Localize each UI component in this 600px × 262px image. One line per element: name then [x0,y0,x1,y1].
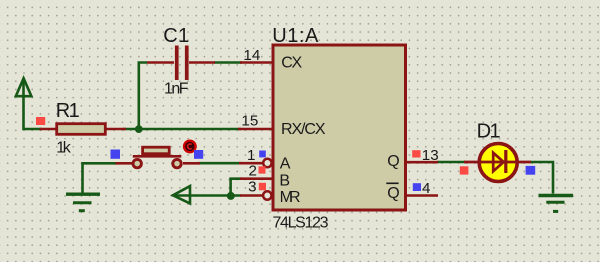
svg-text:13: 13 [422,147,439,164]
svg-text:4: 4 [422,180,430,197]
svg-text:Q: Q [387,185,399,202]
svg-text:B: B [279,173,290,190]
svg-text:R1: R1 [56,100,80,122]
svg-text:CX: CX [281,55,302,72]
svg-text:3: 3 [248,178,256,195]
svg-text:D1: D1 [477,121,501,143]
svg-text:A: A [280,156,291,173]
svg-text:1nF: 1nF [164,81,189,98]
svg-text:MR: MR [280,189,301,206]
svg-text:1k: 1k [56,139,72,156]
svg-text:74LS123: 74LS123 [273,214,329,231]
svg-text:1: 1 [247,147,255,164]
svg-text:Q: Q [387,153,399,170]
svg-text:C1: C1 [163,25,189,47]
svg-text:2: 2 [249,163,257,180]
svg-text:U1:A: U1:A [272,25,319,47]
svg-text:14: 14 [243,47,260,64]
svg-text:15: 15 [241,113,258,130]
svg-text:RX/CX: RX/CX [281,121,326,138]
